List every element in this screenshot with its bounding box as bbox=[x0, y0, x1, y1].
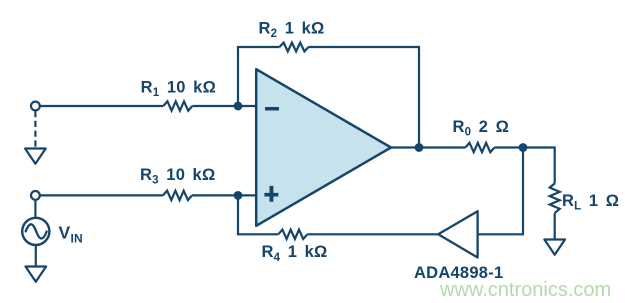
svg-text:R0 2 Ω: R0 2 Ω bbox=[453, 118, 510, 139]
minus input symbol bbox=[265, 107, 279, 111]
wire: corner down to RL bbox=[554, 146, 556, 183]
wire: R4 to buffer output bbox=[307, 233, 439, 235]
input terminal J2 bbox=[31, 191, 40, 200]
wire: junction down to R4 rail bbox=[237, 195, 239, 234]
resistor R4 bbox=[278, 230, 307, 239]
wire: op-amp output to R0 bbox=[391, 146, 465, 148]
resistor R0 bbox=[465, 143, 494, 152]
input terminal J1 bbox=[31, 102, 40, 111]
wire: R3 to op-amp non-inverting input bbox=[192, 194, 257, 196]
wire: vertical from output junction to buffer bbox=[522, 148, 524, 236]
voltage source VIN bbox=[22, 218, 49, 245]
dashed wire to ground bbox=[34, 111, 36, 149]
ground (below VIN) bbox=[26, 267, 47, 282]
svg-text:VIN: VIN bbox=[59, 223, 83, 246]
wire: junction up to feedback rail bbox=[237, 47, 239, 106]
svg-text:R4 1 kΩ: R4 1 kΩ bbox=[262, 243, 328, 264]
resistor R1 bbox=[163, 101, 192, 110]
wire: feedback down to output node bbox=[418, 46, 420, 148]
wire: feedback rail right part bbox=[309, 46, 420, 48]
resistor R3 bbox=[163, 191, 192, 200]
svg-text:R3 10 kΩ: R3 10 kΩ bbox=[140, 166, 215, 187]
wire: source to ground bbox=[35, 245, 37, 267]
plus input symbol bbox=[264, 186, 278, 202]
wire: terminal to R3 bbox=[40, 194, 163, 196]
resistor RL bbox=[550, 183, 560, 213]
ground (top-left) bbox=[25, 149, 46, 164]
op-amp U1 bbox=[256, 69, 391, 226]
buffer amplifier U2 ADA4898-1 bbox=[438, 211, 477, 257]
wire: terminal to R1 bbox=[40, 105, 164, 107]
node: feedback takeoff on output bbox=[415, 143, 424, 152]
svg-text:RL 1 Ω: RL 1 Ω bbox=[562, 192, 619, 213]
wire: terminal J2 down to source bbox=[34, 200, 36, 218]
wire: RL to ground bbox=[554, 213, 556, 240]
wire: R0 to load corner bbox=[494, 146, 554, 148]
node: inverting input junction bbox=[234, 102, 243, 111]
wire: R4 rail left part bbox=[237, 233, 278, 235]
svg-text:www.cntronics.com: www.cntronics.com bbox=[439, 279, 611, 301]
sine symbol bbox=[26, 224, 47, 238]
wire: R1 to op-amp inverting input bbox=[192, 105, 257, 107]
svg-text:R2 1 kΩ: R2 1 kΩ bbox=[259, 19, 325, 40]
node: non-inverting input junction bbox=[234, 191, 243, 200]
svg-text:R1 10 kΩ: R1 10 kΩ bbox=[141, 79, 216, 100]
node: load junction bbox=[519, 143, 528, 152]
wire: feedback rail left part bbox=[237, 46, 280, 48]
wire: buffer input from output node bbox=[478, 233, 523, 235]
ground (below RL) bbox=[544, 240, 565, 255]
resistor R2 bbox=[280, 43, 309, 52]
